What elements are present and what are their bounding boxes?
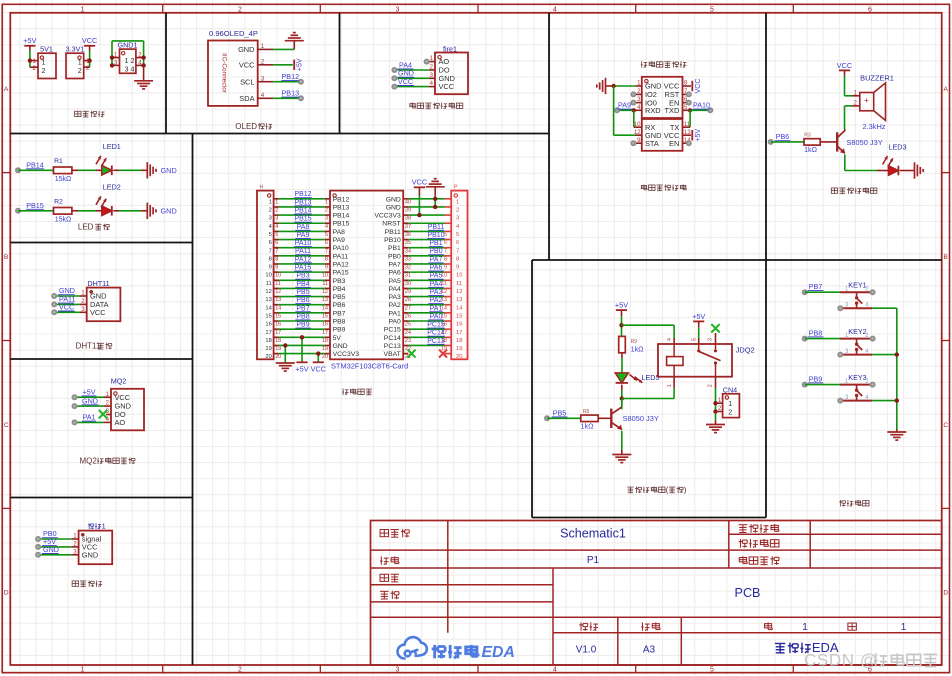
svg-text:PA2: PA2 bbox=[430, 297, 443, 304]
wire LED2 to GND bbox=[113, 210, 119, 212]
title label update date bbox=[739, 524, 748, 526]
node +5V row18 junction bbox=[300, 335, 304, 339]
svg-text:1: 1 bbox=[269, 199, 272, 205]
svg-text:PA6: PA6 bbox=[388, 270, 401, 277]
ground wireless left bbox=[606, 85, 614, 87]
svg-text:GND: GND bbox=[43, 545, 59, 554]
svg-text:8: 8 bbox=[444, 256, 447, 262]
wire MCU left row 17 bbox=[274, 328, 279, 330]
wire MQ2 GND bbox=[75, 405, 104, 407]
pin GND1.4 bbox=[136, 64, 144, 66]
relay contact common bbox=[698, 344, 700, 349]
wire MQ2 PA1 bbox=[75, 421, 104, 423]
node CN4 pin2 junction bbox=[713, 409, 717, 413]
svg-text:GND: GND bbox=[386, 204, 401, 211]
svg-text:PB6: PB6 bbox=[333, 302, 346, 309]
pin GND1.3 bbox=[112, 64, 120, 66]
svg-text:STA: STA bbox=[645, 139, 659, 148]
pin OLED.2 bbox=[258, 64, 274, 66]
wire +5V down bbox=[621, 310, 623, 316]
svg-text:12: 12 bbox=[456, 289, 462, 295]
pin fire1.1 bbox=[427, 61, 435, 63]
pin servo.1 bbox=[71, 538, 78, 540]
svg-text:PA12: PA12 bbox=[333, 261, 349, 268]
wire Q2 collector bbox=[621, 399, 623, 408]
IC U1 STM32 board bbox=[330, 191, 403, 360]
title block h-line under draw row bbox=[371, 584, 554, 586]
connector fire1 bbox=[435, 53, 468, 95]
pin CN4.1 bbox=[716, 402, 723, 404]
pin DHT11.2 bbox=[79, 303, 86, 305]
node PB6 endpoint bbox=[768, 139, 774, 145]
svg-text:12: 12 bbox=[265, 289, 271, 295]
frame column ticks bottom bbox=[162, 665, 164, 673]
svg-text:KEY2: KEY2 bbox=[848, 327, 866, 336]
svg-text:VCC: VCC bbox=[398, 77, 413, 86]
node wireless gnd junction bbox=[611, 84, 615, 88]
no-connect X header P1 pin20 bbox=[439, 350, 447, 358]
wire servo GND bbox=[38, 554, 71, 556]
wire MCU right row 5 bbox=[403, 230, 408, 232]
wire MCU left row 20 bbox=[274, 353, 279, 355]
svg-text:VCC: VCC bbox=[439, 82, 455, 91]
svg-text:Schematic1: Schematic1 bbox=[560, 527, 626, 541]
pin wireless EN1 bbox=[683, 102, 689, 104]
wire PB7 to KEY1 bbox=[805, 291, 840, 293]
wire MCU left row 11 bbox=[274, 279, 279, 281]
node PA9 endpoint bbox=[614, 107, 620, 113]
svg-text:+5V: +5V bbox=[295, 365, 308, 374]
svg-text:PA10: PA10 bbox=[693, 101, 710, 110]
connector GND1 bbox=[120, 49, 136, 73]
frame row ticks left bbox=[2, 172, 10, 174]
svg-text:9: 9 bbox=[325, 265, 328, 271]
svg-text:36: 36 bbox=[405, 232, 411, 238]
resistor R2 bbox=[54, 208, 72, 215]
svg-text:VCC3V3: VCC3V3 bbox=[333, 351, 360, 358]
svg-text:1: 1 bbox=[901, 622, 907, 633]
resistor R8 bbox=[581, 415, 598, 422]
svg-text:PB10: PB10 bbox=[384, 237, 401, 244]
svg-text:19: 19 bbox=[275, 346, 281, 352]
svg-text:NRST: NRST bbox=[382, 221, 401, 228]
node fire GND endpoint bbox=[391, 75, 397, 81]
title block h-line above version row bbox=[371, 616, 942, 618]
wire MCU left row 15 bbox=[274, 312, 279, 314]
pin wireless RX bbox=[634, 126, 642, 128]
svg-text:13: 13 bbox=[322, 297, 328, 303]
svg-text:GND: GND bbox=[82, 396, 98, 405]
relay coil bbox=[667, 357, 683, 366]
svg-text:7: 7 bbox=[269, 248, 272, 254]
wire MQ2 +5V bbox=[75, 396, 104, 398]
svg-text:7: 7 bbox=[456, 248, 459, 254]
pin buzzer.1 bbox=[845, 95, 853, 97]
svg-text:PA6: PA6 bbox=[430, 265, 443, 272]
wire MCU right row 17 bbox=[403, 328, 408, 330]
wire KEY1 to bus bbox=[872, 307, 897, 309]
svg-text:14: 14 bbox=[265, 305, 272, 311]
pin MQ2.2 bbox=[104, 405, 111, 407]
wire GND1 to ground bbox=[143, 65, 145, 80]
wire R9 to LED5 bbox=[621, 353, 623, 358]
svg-text:15: 15 bbox=[322, 313, 328, 319]
svg-text:R8: R8 bbox=[583, 409, 590, 415]
wire PA9 bbox=[617, 109, 634, 111]
svg-text:6: 6 bbox=[456, 240, 459, 246]
svg-text:9: 9 bbox=[456, 265, 459, 271]
svg-text:20: 20 bbox=[265, 354, 271, 360]
svg-text:PA7: PA7 bbox=[430, 256, 443, 263]
svg-text:D: D bbox=[943, 590, 948, 597]
svg-text:PB13: PB13 bbox=[294, 199, 311, 206]
wire MCU right row 2 bbox=[403, 206, 408, 208]
module label MCU bbox=[342, 389, 344, 395]
svg-text:PA9: PA9 bbox=[618, 101, 631, 110]
node PB13 endpoint bbox=[298, 95, 304, 101]
svg-text:7: 7 bbox=[444, 248, 447, 254]
svg-text:2: 2 bbox=[269, 208, 272, 214]
title block v-line size/page bbox=[680, 617, 682, 665]
wire MCU right row 13 bbox=[403, 296, 408, 298]
svg-text:5: 5 bbox=[456, 232, 459, 238]
svg-text:PA7: PA7 bbox=[388, 261, 401, 268]
svg-text:17: 17 bbox=[275, 330, 281, 336]
connector right header P1 bbox=[451, 191, 467, 360]
node VCC row20 junction bbox=[316, 351, 320, 355]
svg-text:PA10: PA10 bbox=[295, 240, 312, 247]
pin wireless STA bbox=[636, 142, 642, 144]
svg-text:+5V: +5V bbox=[23, 36, 36, 45]
connector CN4 bbox=[723, 394, 740, 418]
pin fire1.4 bbox=[429, 86, 435, 88]
svg-text:LED: LED bbox=[78, 223, 94, 232]
ground CN4 bbox=[706, 424, 725, 426]
svg-text:2.3kHz: 2.3kHz bbox=[862, 122, 885, 131]
svg-text:PB8: PB8 bbox=[809, 328, 823, 337]
pin wireless GND2 bbox=[636, 134, 642, 136]
svg-text:32: 32 bbox=[405, 265, 411, 271]
svg-text:AO: AO bbox=[115, 418, 126, 427]
wire MCU right row 12 bbox=[403, 287, 408, 289]
resistor R9 bbox=[619, 336, 626, 352]
wire LED5 to node bbox=[621, 385, 623, 390]
svg-text:4: 4 bbox=[275, 224, 278, 230]
svg-text:3: 3 bbox=[395, 666, 399, 673]
pin wireless EN2 bbox=[683, 142, 689, 144]
frame column ticks top bbox=[162, 4, 164, 13]
svg-text:1: 1 bbox=[456, 199, 459, 205]
module label relay bbox=[627, 486, 633, 488]
svg-text:PB13: PB13 bbox=[282, 89, 300, 98]
pin wireless IO2 bbox=[636, 93, 642, 95]
node GND1 junctions bbox=[110, 55, 114, 59]
transistor Q1 S8050 bbox=[836, 132, 838, 151]
svg-text:PB13: PB13 bbox=[333, 204, 350, 211]
svg-text:18: 18 bbox=[275, 338, 281, 344]
node PB7 endpoint bbox=[802, 289, 808, 295]
wire MCU left row 9 bbox=[274, 263, 279, 265]
wire MCU right row 8 bbox=[403, 255, 408, 257]
wire MCU left row 7 bbox=[274, 247, 279, 249]
svg-text:PC13: PC13 bbox=[384, 343, 401, 350]
svg-text:VCC: VCC bbox=[695, 79, 702, 94]
svg-text:5: 5 bbox=[325, 232, 328, 238]
svg-text:PA12: PA12 bbox=[295, 256, 312, 263]
svg-text:1kΩ: 1kΩ bbox=[631, 345, 645, 354]
designator servo1 bbox=[88, 523, 90, 529]
wire MCU right row 14 bbox=[403, 304, 408, 306]
svg-text:37: 37 bbox=[405, 224, 411, 230]
svg-text:PB15: PB15 bbox=[333, 221, 350, 228]
svg-text:B: B bbox=[944, 254, 948, 261]
pin DHT11.3 bbox=[79, 311, 86, 313]
wire MCU left row 19 bbox=[274, 344, 279, 346]
wire MCU left row 13 bbox=[274, 296, 279, 298]
wire PB6 to R3 bbox=[771, 141, 804, 143]
svg-text:PB9: PB9 bbox=[296, 322, 309, 329]
svg-text:SCL: SCL bbox=[240, 77, 254, 86]
svg-text:1: 1 bbox=[78, 57, 82, 66]
svg-text:2: 2 bbox=[728, 410, 732, 417]
svg-text:5V: 5V bbox=[333, 335, 342, 342]
wire +5V drop MCU bottom bbox=[301, 337, 303, 361]
svg-text:PA1: PA1 bbox=[82, 413, 95, 422]
node +5V endpoint servo bbox=[35, 544, 41, 550]
svg-text:3: 3 bbox=[275, 216, 278, 222]
title label chicun bbox=[641, 622, 643, 630]
svg-text:2: 2 bbox=[238, 666, 242, 673]
svg-text:10: 10 bbox=[322, 273, 328, 279]
svg-text:SDA: SDA bbox=[239, 94, 254, 103]
pin 5V1.1 bbox=[30, 60, 38, 62]
svg-text:1: 1 bbox=[81, 6, 85, 13]
power port +5V MCU bottom bbox=[296, 361, 307, 363]
svg-text:PB1: PB1 bbox=[429, 240, 442, 247]
node PB14 endpoint bbox=[15, 167, 21, 173]
module divider MQ2 bottom bbox=[10, 497, 192, 499]
svg-text:PB10: PB10 bbox=[427, 232, 444, 239]
wire OLED GND bbox=[273, 48, 294, 50]
title label yuanlitu bbox=[380, 530, 388, 537]
node CN4 pin1 junction bbox=[713, 401, 717, 405]
wire bus to ground bbox=[896, 429, 898, 432]
wire GND1 loop top bbox=[112, 40, 144, 42]
svg-text:16: 16 bbox=[265, 322, 271, 328]
svg-text:5: 5 bbox=[275, 232, 278, 238]
wire PB15 to R2 bbox=[18, 210, 54, 212]
wire MCU right row 6 bbox=[403, 239, 408, 241]
svg-text:PA5: PA5 bbox=[430, 273, 443, 280]
svg-text:+5V: +5V bbox=[695, 129, 702, 142]
node gnd row1 junction bbox=[433, 197, 437, 201]
svg-text:3: 3 bbox=[269, 216, 272, 222]
svg-text:14: 14 bbox=[456, 305, 463, 311]
pin wireless TX bbox=[683, 126, 691, 128]
node 3.3V1 pin junction bbox=[87, 58, 91, 62]
svg-text:VCC: VCC bbox=[90, 308, 106, 317]
wire KEY2 to bus bbox=[872, 354, 897, 356]
wire MCU left row 6 bbox=[274, 239, 279, 241]
svg-text:1: 1 bbox=[102, 522, 106, 531]
svg-text:PB15: PB15 bbox=[26, 201, 44, 210]
svg-text:3: 3 bbox=[395, 6, 399, 13]
svg-text:35: 35 bbox=[405, 240, 411, 246]
node relay +5V junction bbox=[619, 323, 623, 327]
wire Q2 emitter to ground bbox=[621, 431, 623, 450]
title label total bbox=[848, 623, 856, 630]
module divider LED module bottom bbox=[10, 242, 192, 244]
svg-text:11: 11 bbox=[322, 281, 328, 287]
svg-text:S8050 J3Y: S8050 J3Y bbox=[623, 414, 659, 423]
svg-text:PA11: PA11 bbox=[295, 248, 311, 255]
no-connect X relay pin3 bbox=[711, 324, 719, 332]
svg-text:P1: P1 bbox=[587, 555, 600, 566]
svg-text:1: 1 bbox=[667, 384, 673, 387]
svg-text:+: + bbox=[864, 96, 869, 105]
svg-text:7: 7 bbox=[275, 248, 278, 254]
title text jlceda right bbox=[775, 642, 785, 644]
module label keys bbox=[840, 500, 842, 506]
node MQ2 PA1 endpoint bbox=[72, 419, 78, 425]
node gnd row2 junction bbox=[433, 205, 437, 209]
svg-text:PB5: PB5 bbox=[333, 294, 346, 301]
wire fire1 DO bbox=[394, 69, 429, 71]
wire PB5 to R8 bbox=[547, 417, 581, 419]
svg-text:20: 20 bbox=[322, 354, 328, 360]
ground tap bbox=[146, 162, 148, 178]
svg-text:JDQ2: JDQ2 bbox=[736, 345, 755, 354]
svg-text:PA0: PA0 bbox=[388, 319, 401, 326]
svg-text:PB11: PB11 bbox=[385, 229, 401, 236]
connector 5V1 bbox=[38, 53, 56, 78]
svg-text:PB5: PB5 bbox=[296, 289, 309, 296]
pin wireless TXD bbox=[683, 109, 691, 111]
title block h-line under version row bbox=[553, 632, 942, 634]
module label servo bbox=[72, 581, 78, 586]
svg-text:EN: EN bbox=[669, 139, 679, 148]
svg-text:PB3: PB3 bbox=[333, 278, 346, 285]
title block v-line version/size bbox=[617, 617, 619, 665]
wire MCU right row 16 bbox=[403, 320, 408, 322]
module divider power/OLED bbox=[165, 13, 167, 134]
wire fire1 VCC bbox=[394, 86, 429, 88]
svg-text:3: 3 bbox=[325, 216, 328, 222]
svg-text:8: 8 bbox=[269, 256, 272, 262]
wire servo PB0 bbox=[38, 538, 71, 540]
switch KEY2 bbox=[840, 338, 874, 340]
connector MQ2 bbox=[111, 389, 144, 431]
wire relay pin2 to CN4 bbox=[715, 377, 717, 388]
svg-text:14: 14 bbox=[322, 305, 328, 311]
connector OLED 0.96OLED_4P box bbox=[208, 41, 258, 106]
svg-text:PC13: PC13 bbox=[427, 338, 445, 345]
svg-text:15: 15 bbox=[275, 313, 281, 319]
pin OLED.1 bbox=[258, 48, 274, 50]
wire R2 to LED2 bbox=[72, 210, 78, 212]
svg-text:GND: GND bbox=[161, 206, 177, 215]
module divider left column right edge bbox=[192, 134, 194, 666]
svg-text:PB5: PB5 bbox=[553, 408, 567, 417]
ground keys bbox=[887, 431, 906, 433]
ground tap bbox=[146, 203, 148, 219]
svg-text:4: 4 bbox=[325, 224, 328, 230]
wire MCU left row 3 bbox=[274, 214, 279, 216]
node GND row19 junction bbox=[283, 343, 287, 347]
relay throw to pin2 bbox=[714, 361, 717, 364]
svg-text:8: 8 bbox=[325, 256, 328, 262]
svg-text:28: 28 bbox=[405, 297, 411, 303]
node GND endpoint bbox=[51, 293, 57, 299]
wire OLED VCC bbox=[273, 64, 293, 66]
wire MCU right row 1 bbox=[403, 198, 408, 200]
title block h-line under updated-date bbox=[729, 533, 942, 535]
svg-text:9: 9 bbox=[275, 265, 278, 271]
wire RXD to RX bbox=[633, 110, 635, 127]
node fire1 AO endpoint bbox=[424, 59, 430, 65]
transistor Q2 S8050 bbox=[610, 409, 612, 428]
power port +5V (5V1) bbox=[24, 45, 35, 47]
svg-text:PB9: PB9 bbox=[809, 374, 823, 383]
svg-text:3.3V1: 3.3V1 bbox=[66, 45, 85, 54]
pin fire1.2 bbox=[429, 69, 435, 71]
wire MCU right row 4 bbox=[403, 222, 408, 224]
pin GND1.1 bbox=[112, 57, 120, 59]
svg-text:PA11: PA11 bbox=[333, 253, 349, 260]
svg-text:2: 2 bbox=[78, 66, 82, 75]
title label shenyue bbox=[380, 590, 388, 592]
buzzer BUZZER1 bbox=[860, 93, 874, 111]
wire fire1 GND bbox=[394, 77, 429, 79]
svg-text:PA4: PA4 bbox=[388, 286, 401, 293]
svg-text:17: 17 bbox=[322, 330, 328, 336]
power port +5V wireless bbox=[691, 130, 693, 140]
node 5V1 pin junction bbox=[28, 58, 32, 62]
wire +5V to 5V1 bbox=[29, 46, 31, 51]
pin MQ2.4 bbox=[104, 421, 111, 423]
wire MCU left row 10 bbox=[274, 271, 279, 273]
svg-text:EDA: EDA bbox=[482, 644, 515, 661]
svg-text:15: 15 bbox=[456, 313, 462, 319]
wire GND1 loop right bbox=[143, 41, 145, 66]
wire MCU right row 7 bbox=[403, 247, 408, 249]
node PA4 endpoint bbox=[391, 67, 397, 73]
wire DHT11 GND bbox=[54, 295, 79, 297]
node MQ2 +5V endpoint bbox=[72, 394, 78, 400]
svg-text:CN4: CN4 bbox=[723, 386, 737, 395]
title block v-line label column bbox=[447, 521, 449, 633]
svg-text:IIC-Connector: IIC-Connector bbox=[221, 53, 228, 94]
svg-text:GND: GND bbox=[161, 166, 177, 175]
svg-text:4: 4 bbox=[553, 6, 557, 13]
svg-text:2: 2 bbox=[456, 208, 459, 214]
svg-text:2: 2 bbox=[275, 208, 278, 214]
svg-text:PA9: PA9 bbox=[297, 232, 310, 239]
svg-text:MQ2: MQ2 bbox=[111, 376, 127, 385]
svg-text:VCC3V3: VCC3V3 bbox=[374, 213, 401, 220]
svg-text:PA0: PA0 bbox=[430, 313, 443, 320]
svg-text:PB8: PB8 bbox=[333, 319, 346, 326]
power port +5V relay mid bbox=[693, 320, 704, 322]
relay lever bbox=[700, 352, 721, 361]
node fire VCC endpoint bbox=[391, 84, 397, 90]
node PA11 endpoint bbox=[51, 301, 57, 307]
pin relay.3 stub bbox=[715, 333, 717, 344]
wire MCU right row 3 bbox=[403, 214, 408, 216]
wire +5V to relay pin4 bbox=[622, 324, 675, 326]
svg-text:25: 25 bbox=[405, 322, 411, 328]
resistor R1 bbox=[54, 167, 72, 174]
